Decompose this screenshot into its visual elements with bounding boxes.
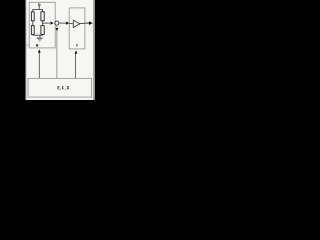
arrowhead into node	[50, 22, 53, 25]
wire: terminal to top bar	[38, 6, 40, 10]
ground	[37, 37, 43, 39]
resistor R3 (lower left)	[31, 26, 34, 35]
wire: bridge bottom bar	[33, 34, 43, 36]
amplifier box (outline)	[69, 8, 85, 49]
wire: amp input stub	[69, 22, 73, 24]
resistor R2 (upper right)	[41, 12, 44, 21]
wire: node down to E,K,D box	[56, 25, 58, 78]
control unit box E,K,D	[28, 78, 92, 97]
wire: bridge tap to node	[43, 22, 50, 24]
wire: bridge top bar	[33, 8, 43, 10]
wire: between right resistors (tap node)	[42, 21, 44, 26]
page left edge shading	[26, 0, 27, 100]
white page	[26, 0, 94, 100]
wire: amp output stub	[80, 22, 85, 24]
wire: right column to bottom bar	[42, 33, 44, 36]
wire: node to amplifier	[59, 22, 66, 24]
black background	[0, 0, 120, 100]
arrowhead up into bridge box	[38, 49, 41, 53]
label 2 (bridge)	[36, 44, 38, 46]
label E, K, D	[58, 86, 69, 90]
supply terminal circle	[38, 4, 40, 6]
arrowhead into amplifier box	[66, 22, 69, 25]
scan smudge on page edge	[26, 44, 29, 47]
wire: E,K,D up to bridge box	[38, 53, 40, 79]
arrowhead down on node wire	[56, 28, 59, 31]
wire: left column to bottom bar	[32, 33, 34, 36]
page right edge shading	[93, 0, 95, 100]
wire: bottom bar to ground	[39, 35, 41, 38]
label 7 (amplifier)	[76, 43, 78, 46]
resistor R4 (lower right)	[41, 26, 44, 35]
arrowhead output (to page edge)	[89, 21, 93, 25]
wire: output line	[85, 22, 89, 24]
wire: E,K,D up to amplifier box	[75, 53, 77, 78]
wire: left column drop	[32, 9, 34, 11]
op-amp triangle U1	[73, 20, 80, 27]
resistor R1 (upper left)	[31, 12, 34, 21]
arrowhead up into amplifier box	[75, 50, 78, 54]
wire: right column drop	[42, 9, 44, 11]
node circle (junction)	[55, 21, 59, 25]
wire: between left resistors	[32, 21, 34, 26]
sensor bridge box (outline)	[29, 2, 55, 48]
